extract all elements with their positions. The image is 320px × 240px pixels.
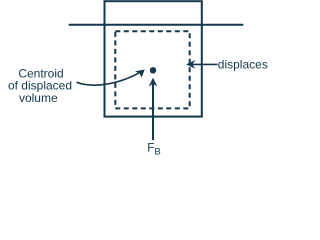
- displaces pointer shaft: [189, 63, 218, 65]
- svg-text:B: B: [154, 146, 160, 157]
- svg-text:volume: volume: [19, 91, 58, 105]
- water surface line: [70, 24, 243, 26]
- curved leader arrowhead: [135, 70, 145, 78]
- centroid dot: [150, 67, 156, 73]
- body outline (submerged block): [105, 1, 202, 116]
- displaces arrowhead: [186, 60, 195, 69]
- svg-text:displaces: displaces: [218, 57, 268, 71]
- buoyant force arrowhead: [149, 78, 158, 87]
- displaced volume (dashed rectangle): [115, 31, 189, 108]
- buoyant force arrow shaft: [152, 81, 154, 140]
- curved leader arrow: [77, 72, 142, 85]
